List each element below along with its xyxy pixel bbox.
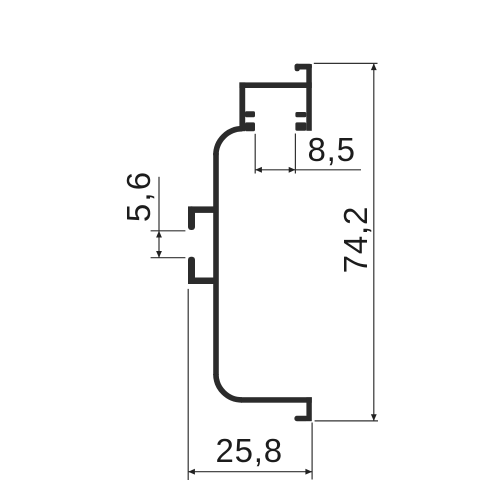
arrow 5,6 up xyxy=(156,231,162,238)
arrow 25,8 left xyxy=(188,469,195,475)
arrow 5,6 down xyxy=(156,251,162,258)
arrow 74,2 top xyxy=(371,63,377,70)
arrow 8,5 right xyxy=(289,167,296,173)
profile: lower bracket stub xyxy=(188,257,195,284)
profile: upper bracket stub xyxy=(188,206,195,230)
profile: right channel wall xyxy=(306,64,312,131)
svg-text:8,5: 8,5 xyxy=(307,131,355,168)
profile: left channel wall xyxy=(239,82,245,131)
svg-text:25,8: 25,8 xyxy=(215,432,282,469)
svg-text:74,2: 74,2 xyxy=(337,206,374,273)
arrow 74,2 bottom xyxy=(371,414,377,421)
dim 25,8: dimension line xyxy=(188,471,312,473)
dim 8,5: dimension line xyxy=(255,169,361,171)
dim 74,2: dimension line xyxy=(373,63,375,421)
profile: top hook left nub xyxy=(295,64,300,72)
profile: upper-right tooth xyxy=(295,112,306,117)
svg-text:5,6: 5,6 xyxy=(120,170,157,222)
profile: top hook bar xyxy=(295,64,312,70)
arrow 25,8 right xyxy=(305,469,312,475)
profile: lower-right foot xyxy=(295,122,306,130)
profile: channel top bar xyxy=(239,82,311,88)
arrow 8,5 left xyxy=(255,167,262,173)
dim 5,6: upper extension line xyxy=(151,230,186,232)
profile: bottom outer curve xyxy=(216,374,242,400)
dim 25,8: left extension line xyxy=(187,289,189,480)
dim 5,6: dimension line xyxy=(158,177,160,258)
dim 74,2: bottom extension line xyxy=(315,420,378,422)
profile: upper-left tooth xyxy=(245,111,255,117)
dim 74,2: top extension line xyxy=(314,62,378,64)
profile: lower-left foot xyxy=(245,122,255,131)
profile: lower bracket bar xyxy=(188,278,218,285)
profile: upper bracket bar xyxy=(188,206,218,213)
profile: bottom hook left stub xyxy=(294,416,308,421)
dim 5,6: lower extension line xyxy=(151,257,186,259)
dim 25,8: right extension line xyxy=(311,423,313,480)
profile: upper outer curve xyxy=(216,129,243,156)
dim 8,5: right extension line xyxy=(294,134,296,174)
dim 8,5: left extension line xyxy=(254,134,256,174)
profile: bottom bar xyxy=(241,397,312,403)
profile: bottom-right stub down xyxy=(306,397,311,421)
profile: main vertical wall xyxy=(213,153,219,375)
